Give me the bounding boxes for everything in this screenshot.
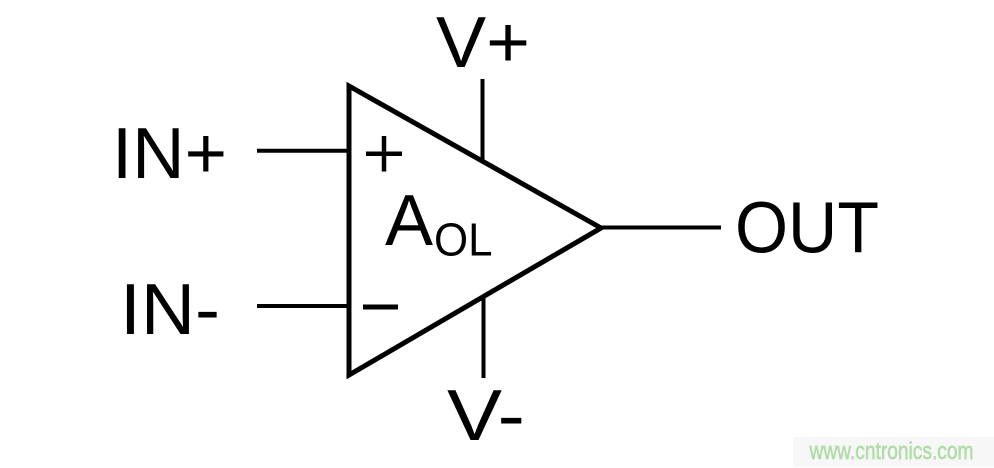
svg-text:V-: V- [447, 376, 525, 456]
label A_OL open-loop gain [385, 181, 493, 266]
wire V+ positive supply pin [481, 79, 485, 160]
svg-text:OUT: OUT [735, 189, 879, 269]
svg-text:www.cntronics.com: www.cntronics.com [809, 438, 974, 465]
svg-text:IN-: IN- [120, 270, 220, 350]
svg-text:A: A [385, 181, 433, 261]
svg-text:IN+: IN+ [112, 114, 227, 194]
svg-text:V+: V+ [436, 3, 530, 83]
op-amp A_OL triangle body [349, 86, 601, 375]
wire OUT from op-amp output [601, 226, 721, 230]
op-amp inverting input minus symbol [363, 305, 398, 310]
wire IN- to inverting input [257, 304, 349, 308]
wire V- negative supply pin [482, 297, 486, 378]
watermark background tint [793, 437, 994, 467]
wire IN+ to noninverting input [257, 149, 349, 153]
op-amp noninverting input plus symbol [366, 136, 402, 172]
svg-text:OL: OL [434, 214, 493, 266]
